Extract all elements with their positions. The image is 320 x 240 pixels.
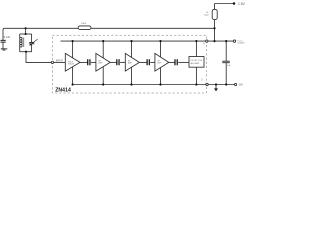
- ground: [1, 49, 7, 50]
- wire A2 output: [110, 61, 117, 63]
- wire input lead: [26, 52, 51, 63]
- svg-text:3: 3: [201, 79, 203, 81]
- svg-text:0V: 0V: [239, 83, 244, 87]
- wire supply vertical: [214, 4, 216, 42]
- wire A1 output: [80, 61, 88, 63]
- wire tuned circuit bottom: [20, 51, 32, 53]
- svg-text:AGC AMP: AGC AMP: [191, 62, 200, 65]
- terminal 0V: [235, 83, 237, 85]
- wire stage 1 supply/ground stub: [72, 41, 74, 84]
- capacitor C1: [1, 36, 11, 49]
- svg-text:1.5V: 1.5V: [238, 2, 246, 6]
- wire battery positive lead: [215, 3, 234, 5]
- amplifier stage A4: [155, 53, 169, 71]
- svg-text:4: 4: [203, 43, 205, 45]
- pin ground circle on box edge: [206, 83, 208, 85]
- terminal output to AF amplifier: [233, 40, 235, 42]
- wire to A2: [91, 61, 96, 63]
- coupling capacitor C5: [175, 59, 177, 65]
- svg-text:DETECTOR: DETECTOR: [191, 60, 203, 62]
- node supply/output junction: [213, 40, 215, 42]
- svg-text:0.1uF: 0.1uF: [4, 36, 11, 39]
- amplifier stage A1: [65, 53, 80, 71]
- amplifier stage A2: [96, 53, 110, 71]
- node junction tuned circuit to input: [25, 51, 27, 53]
- svg-text:amplifier: amplifier: [237, 43, 245, 45]
- node dots on internal top rail: [72, 40, 198, 42]
- inductor L1 ferrite rod coil: [20, 34, 24, 52]
- svg-text:ZN414: ZN414: [55, 87, 71, 93]
- node junction at top rail to tuned circuit: [25, 27, 27, 35]
- wire detector supply/ground stub: [195, 41, 197, 84]
- resistor R1 on supply rail: [78, 23, 91, 29]
- coupling capacitor C4: [147, 59, 149, 65]
- coupling capacitor C2: [88, 59, 90, 65]
- wire stage 3 supply/ground stub: [131, 41, 133, 84]
- wire to A4: [150, 61, 155, 63]
- node supply/top-rail junction: [213, 27, 215, 29]
- node cap top junction: [225, 40, 227, 42]
- wire internal top rail: [61, 40, 206, 42]
- svg-text:1uF: 1uF: [227, 65, 231, 67]
- node cap bottom junction: [225, 83, 227, 85]
- wire to detector: [178, 61, 189, 63]
- pin output circle on box edge: [206, 40, 208, 42]
- svg-text:INPUT: INPUT: [56, 60, 63, 62]
- capacitor C6 decoupling: [222, 41, 231, 84]
- pin input circle: [51, 61, 53, 63]
- node dots on internal bottom rail: [72, 83, 198, 85]
- variable capacitor VC1: [29, 34, 37, 52]
- wire stage 4 supply/ground stub: [160, 41, 162, 84]
- svg-text:100k: 100k: [81, 23, 87, 25]
- coupling capacitor C3: [117, 59, 119, 65]
- wire stage 2 supply/ground stub: [102, 41, 104, 84]
- wire tuned circuit top: [20, 33, 32, 35]
- terminal 1.5V: [233, 2, 236, 5]
- wire top supply rail: [3, 28, 215, 40]
- resistor R2 load: [204, 9, 217, 19]
- wire A4 output: [169, 61, 175, 63]
- IC ZN414 dashed box: [52, 35, 206, 93]
- wire internal bottom rail: [73, 84, 206, 86]
- detector block U2: [189, 57, 204, 68]
- wire to A3: [120, 61, 125, 63]
- svg-text:load: load: [204, 15, 209, 17]
- wire A3 output: [139, 61, 147, 63]
- amplifier stage A3: [125, 53, 139, 71]
- svg-text:STAGE: STAGE: [68, 62, 75, 65]
- ground arrow: [214, 83, 218, 91]
